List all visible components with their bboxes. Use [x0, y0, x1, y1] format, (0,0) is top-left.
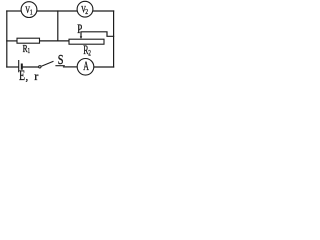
- switch S pivot dot: [39, 66, 41, 68]
- voltmeter V2: [77, 1, 93, 17]
- wire junction vertical (top rail to middle rail): [57, 11, 59, 41]
- svg-text:2: 2: [85, 8, 88, 16]
- wire top rail left segment: [7, 10, 21, 12]
- wire switch to ammeter segment: [64, 66, 78, 68]
- ammeter A: [77, 59, 94, 76]
- wire top rail middle segment: [37, 10, 77, 12]
- resistor R2 (rheostat track): [69, 39, 104, 44]
- wire battery to switch segment: [22, 66, 38, 68]
- svg-text:1: 1: [28, 49, 31, 56]
- svg-text:S: S: [58, 52, 64, 68]
- svg-text:E: E: [19, 67, 25, 82]
- resistor R1: [17, 38, 40, 43]
- wire middle rail left segment: [7, 40, 17, 42]
- switch S contact line: [55, 65, 64, 67]
- svg-text:,: ,: [26, 70, 29, 82]
- wire ammeter to corner segment: [94, 66, 114, 68]
- wire right vertical: [113, 11, 115, 67]
- wire wiper lead (up, right, jog down to right rail): [81, 32, 114, 37]
- svg-text:A: A: [83, 59, 89, 74]
- svg-text:P: P: [77, 23, 82, 37]
- svg-text:1: 1: [30, 9, 33, 17]
- svg-text:r: r: [34, 69, 38, 82]
- battery E,r long plate: [18, 60, 20, 72]
- wire bottom rail battery-left segment: [7, 66, 18, 68]
- svg-text:2: 2: [88, 48, 91, 58]
- label R1: [23, 43, 30, 56]
- wire top rail right segment: [93, 10, 114, 12]
- wiper arrow of rheostat P: [80, 36, 82, 39]
- battery E,r short thick plate: [21, 64, 23, 70]
- wire R1 to R2 segment: [40, 40, 70, 42]
- switch S blade: [41, 61, 54, 66]
- voltmeter V1: [21, 2, 37, 18]
- label R2: [83, 44, 91, 58]
- wire left vertical: [6, 11, 8, 67]
